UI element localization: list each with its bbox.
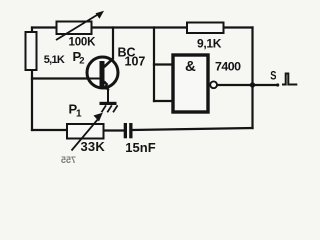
wire NAND input feed drop from top rail <box>153 28 155 102</box>
wire bottom rail between P1 and C1 <box>103 129 124 131</box>
ground symbol <box>100 102 118 113</box>
svg-text:2: 2 <box>79 56 84 67</box>
potentiometer P2 100K body <box>57 22 92 35</box>
wire right rail vertical <box>251 28 253 129</box>
NAND gate U1 box <box>173 55 208 112</box>
resistor 9,1K <box>187 23 224 34</box>
wire collector drop from top rail <box>112 28 114 59</box>
transistor emitter diagonal with arrowhead <box>104 82 108 86</box>
svg-text:&: & <box>185 58 196 75</box>
potentiometer P2 wiper arrow <box>56 15 97 40</box>
wire upper NAND input stub <box>154 63 172 65</box>
wire top rail right segment <box>92 26 188 28</box>
svg-text:33K: 33K <box>81 139 106 154</box>
wire base lead inside circle <box>87 78 100 80</box>
wire bottom rail left segment <box>32 129 67 131</box>
wire from R2 right to right rail corner <box>224 26 253 28</box>
transistor base bar <box>100 61 105 89</box>
svg-text:5,1K: 5,1K <box>44 54 65 66</box>
capacitor C1 15nF plates <box>124 123 127 138</box>
junction node dot <box>250 82 255 87</box>
transistor collector diagonal <box>104 58 113 67</box>
wire lower NAND input stub <box>154 100 172 102</box>
svg-text:1: 1 <box>76 108 82 119</box>
wire NAND output to S terminal <box>217 84 277 86</box>
NAND output inversion bubble <box>210 81 217 88</box>
svg-text:755: 755 <box>61 155 76 165</box>
pulse waveform icon <box>282 74 297 85</box>
svg-text:7400: 7400 <box>215 60 241 74</box>
svg-text:15nF: 15nF <box>125 140 155 155</box>
wire stub from rail to R1 top <box>31 28 33 33</box>
potentiometer P1 wiper arrow <box>72 119 99 151</box>
resistor 5,1K <box>26 32 37 70</box>
potentiometer P1 33K body <box>67 124 104 139</box>
wire emitter to ground <box>107 89 109 103</box>
wire bottom rail right segment <box>133 128 253 130</box>
svg-text:107: 107 <box>125 55 146 69</box>
faint page bleed-through marks <box>61 155 76 165</box>
transistor Q1 BC107 circle <box>87 57 118 88</box>
wire top rail left segment <box>32 26 57 28</box>
terminal dot at S <box>276 83 279 86</box>
wire from R1 bottom down left rail to bottom rail corner <box>31 70 33 130</box>
svg-text:S: S <box>270 71 276 83</box>
wire base lead from left rail to transistor base <box>32 77 100 79</box>
svg-text:100K: 100K <box>69 37 97 49</box>
svg-text:9,1K: 9,1K <box>197 36 222 50</box>
